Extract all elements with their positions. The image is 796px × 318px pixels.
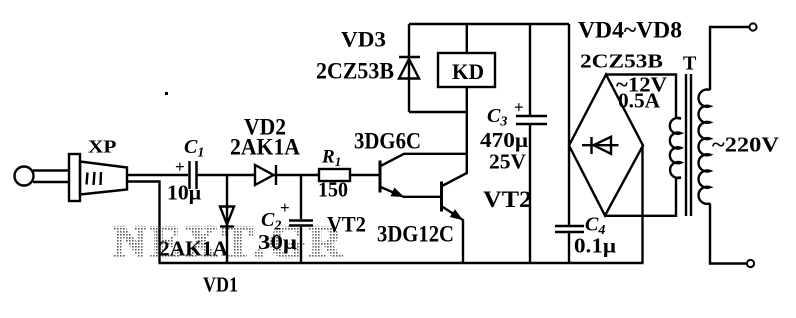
- terminal top: [749, 23, 756, 30]
- wire VD2 to R1: [274, 174, 319, 176]
- wire top rail: [409, 23, 569, 25]
- resistor R1: [319, 169, 350, 181]
- capacitor C2 branch: [300, 175, 302, 219]
- svg-text:25V: 25V: [489, 150, 526, 174]
- svg-text:2AK1A: 2AK1A: [159, 237, 229, 261]
- svg-text:T: T: [683, 53, 697, 75]
- svg-text:VD4~VD8: VD4~VD8: [578, 18, 682, 43]
- svg-text:0.1μ: 0.1μ: [574, 234, 616, 258]
- svg-text:10μ: 10μ: [167, 181, 201, 205]
- svg-text:2AK1A: 2AK1A: [230, 135, 300, 160]
- wire primary bottom to terminal: [710, 203, 746, 263]
- wire right rail from top rail to bridge left vertex and C4: [568, 24, 570, 225]
- wire bridge right vertex down to bottom rail: [641, 146, 643, 263]
- wire plug bottom terminal down to bottom rail: [127, 182, 160, 264]
- capacitor C4: [555, 225, 584, 228]
- bridge diode symbol: [582, 137, 619, 154]
- wire C1 to VD2: [198, 174, 256, 176]
- wire collector node vertical to KD: [466, 87, 468, 174]
- svg-text:3DG6C: 3DG6C: [354, 129, 421, 154]
- svg-text:VT2: VT2: [483, 187, 532, 212]
- svg-text:+: +: [514, 98, 524, 117]
- diode VD3 branch: [408, 24, 410, 112]
- relay KD box: [438, 53, 495, 87]
- wire bridge bottom vertex to secondary bottom: [605, 178, 681, 216]
- svg-text:3DG12C: 3DG12C: [377, 222, 454, 247]
- svg-text:~220V: ~220V: [712, 133, 779, 157]
- bridge rectifier VD4~VD8 diamond: [569, 75, 643, 216]
- svg-text:VT2: VT2: [327, 212, 366, 237]
- transistor VT1 3DG6C: [380, 154, 467, 197]
- svg-text:0.5A: 0.5A: [618, 89, 661, 113]
- svg-text:KD: KD: [452, 59, 484, 84]
- wire bottom rail: [159, 262, 644, 265]
- wire R1 to VT1 base: [350, 174, 379, 176]
- svg-text:XP: XP: [88, 137, 117, 157]
- wire bridge top vertex to secondary top: [606, 75, 681, 119]
- wire primary top to terminal: [710, 27, 749, 90]
- svg-text:VD1: VD1: [203, 273, 238, 297]
- svg-text:150: 150: [318, 178, 348, 202]
- capacitor C3 branch: [529, 24, 531, 115]
- wire VD3 bottom to KD bottom: [409, 111, 467, 113]
- transformer T secondary winding: [670, 118, 681, 178]
- transformer T primary winding: [699, 89, 710, 203]
- svg-text:NEXT.GR: NEXT.GR: [113, 216, 346, 267]
- svg-text:470μ: 470μ: [480, 128, 528, 152]
- svg-text:2CZ53B: 2CZ53B: [580, 51, 663, 73]
- diode VD2: [255, 165, 274, 185]
- node speck: [165, 92, 168, 95]
- svg-text:VD3: VD3: [341, 27, 386, 52]
- transformer core: [685, 74, 687, 216]
- transistor VT2 3DG12C: [442, 173, 467, 263]
- diode VD1 vertical branch: [226, 176, 228, 262]
- terminal bottom: [747, 260, 754, 267]
- svg-text:+: +: [175, 157, 185, 176]
- wire KD top lead: [466, 24, 468, 53]
- wire plug top terminal to C1: [127, 174, 188, 176]
- svg-text:+: +: [280, 198, 290, 217]
- svg-text:30μ: 30μ: [258, 230, 297, 254]
- plug XP body: [15, 154, 128, 201]
- capacitor C1: [190, 161, 197, 189]
- svg-text:2CZ53B: 2CZ53B: [316, 59, 394, 84]
